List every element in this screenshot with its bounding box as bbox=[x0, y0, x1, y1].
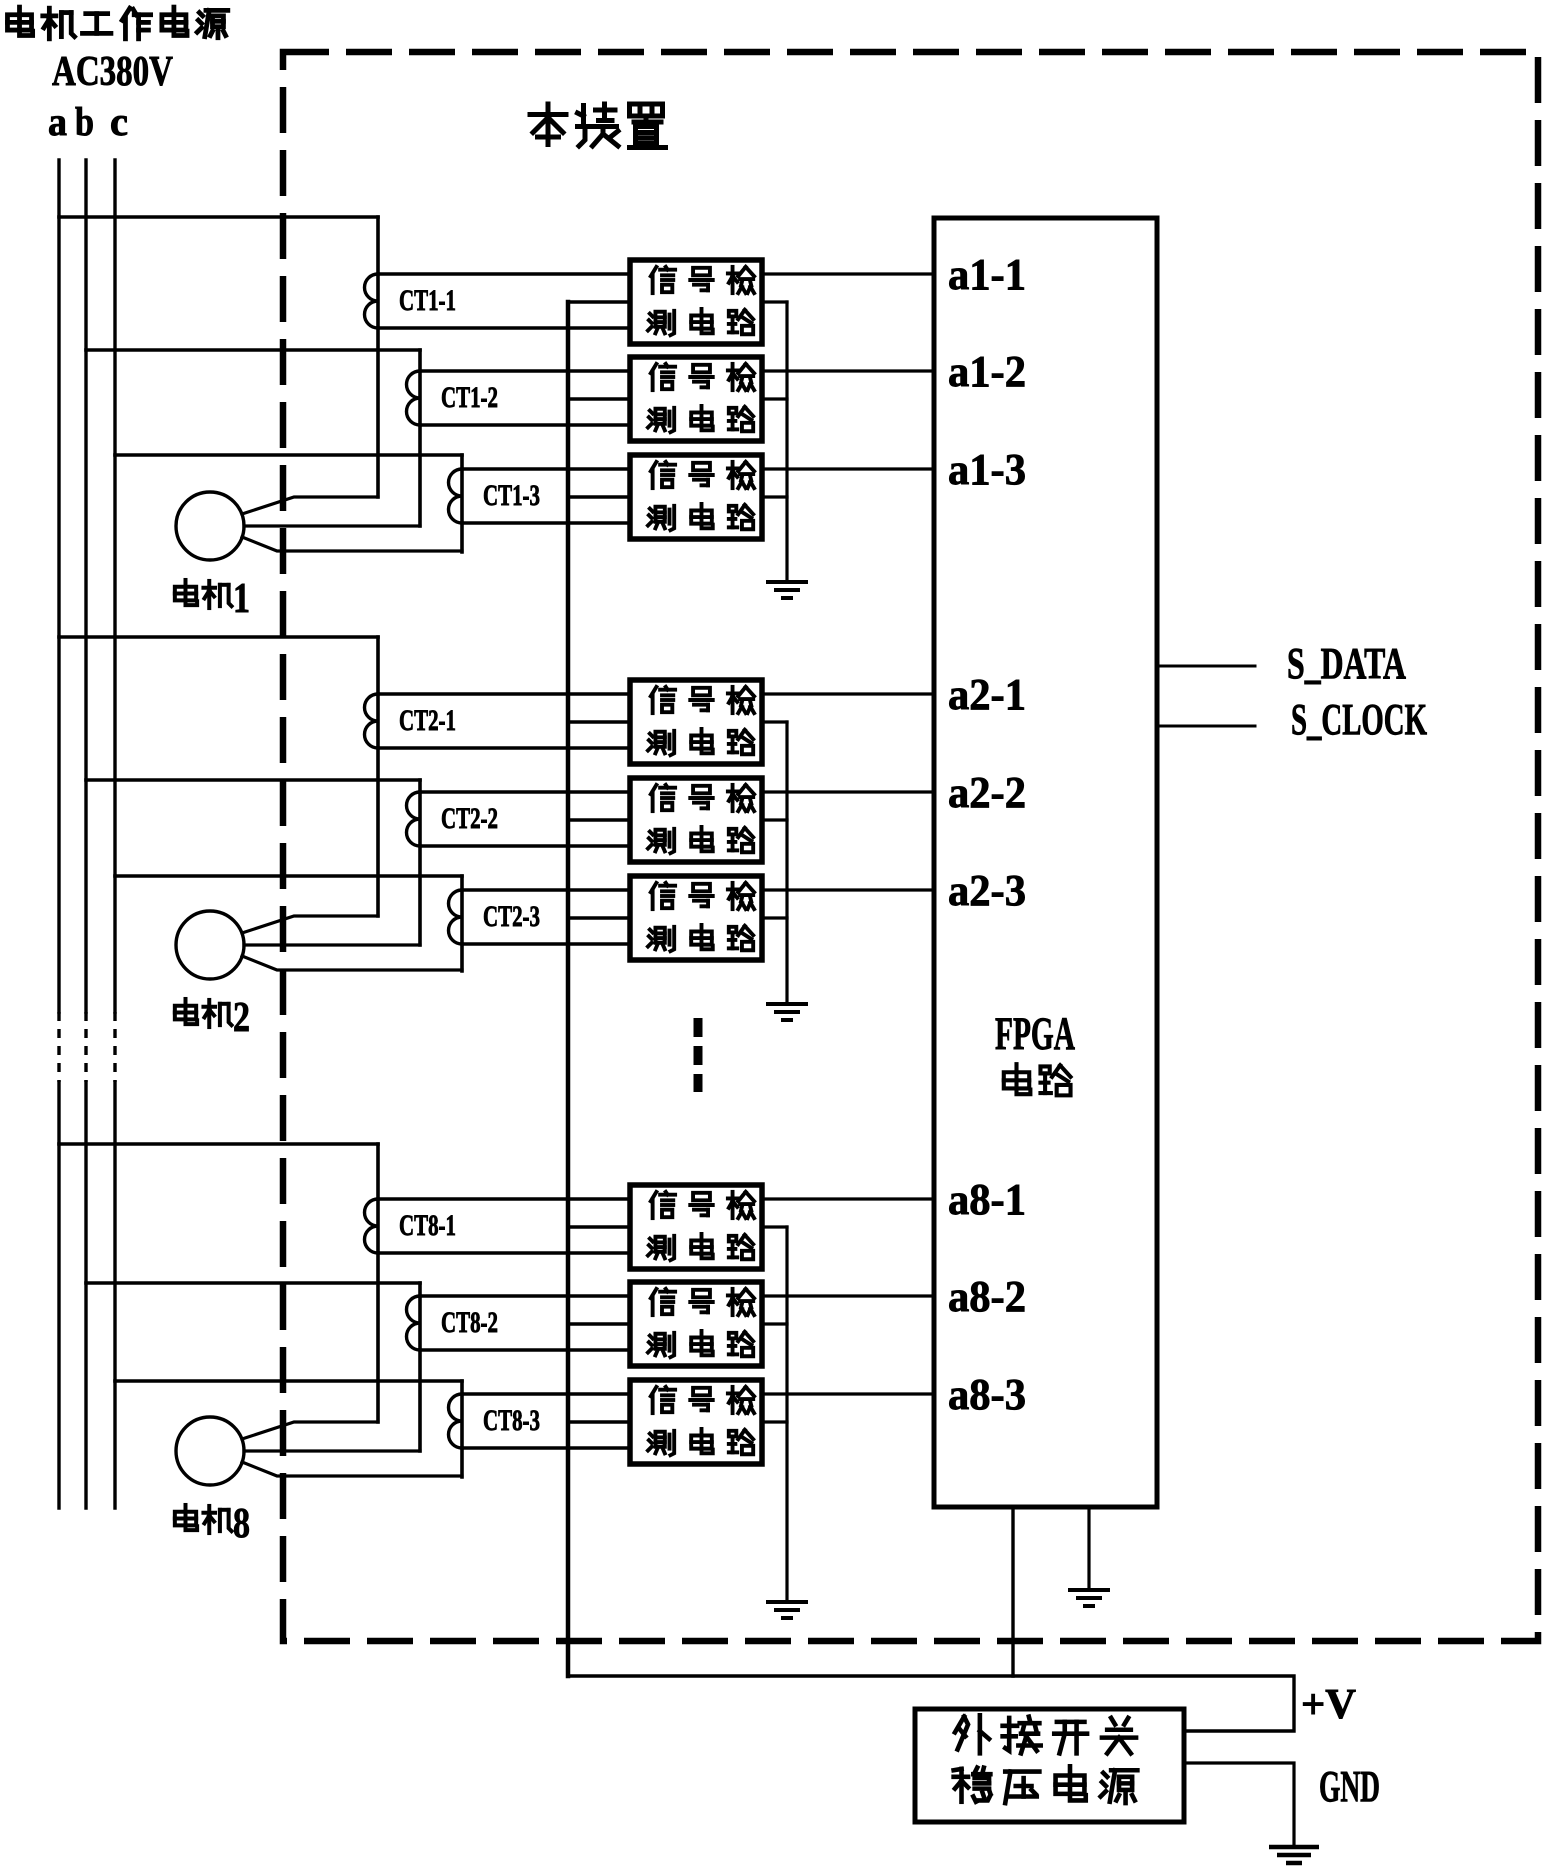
wire box1 output to FPGA bbox=[762, 272, 934, 275]
CT coil CT2-2 bbox=[407, 792, 421, 846]
wire phase-c tap motor8 bbox=[115, 1379, 462, 1383]
label 电路 (FPGA) bbox=[1004, 1064, 1031, 1094]
CT coil CT8-3 bbox=[449, 1394, 463, 1448]
power supply box 外接开关稳压电源 bbox=[915, 1709, 1184, 1822]
wire CT1-3 secondary bottom bbox=[462, 521, 630, 524]
svg-text:CT8-3: CT8-3 bbox=[483, 1404, 540, 1437]
wire motor2 phase-a lead bbox=[242, 916, 378, 933]
wire CT1 primary vertical b bbox=[418, 350, 422, 526]
wire FPGA +V feed bbox=[1011, 1507, 1014, 1676]
wire S_DATA bbox=[1157, 665, 1255, 668]
device enclosure dashed border 本装置 bbox=[283, 52, 1538, 1641]
wire motor1 phase-a lead bbox=[242, 497, 378, 514]
wire CT1 primary vertical a bbox=[376, 217, 380, 497]
CT coil CT1-2 bbox=[407, 371, 421, 425]
wire box1 ground branch bbox=[762, 300, 787, 303]
wire CT2-2 secondary top bbox=[420, 790, 630, 793]
power bus line c (phase c) bbox=[113, 160, 116, 1012]
svg-text:8: 8 bbox=[233, 1501, 250, 1547]
wire motor8 phase-c lead bbox=[242, 1462, 462, 1476]
signal detection box 信号检测电路 3 bbox=[630, 455, 762, 539]
wire CT2 primary vertical c bbox=[460, 876, 464, 971]
wire CT8 primary vertical a bbox=[376, 1144, 380, 1422]
svg-text:AC380V: AC380V bbox=[52, 49, 173, 95]
wire CT2-2 secondary bottom bbox=[420, 844, 630, 847]
svg-text:a8-2: a8-2 bbox=[948, 1272, 1026, 1321]
wire CT1 primary vertical c bbox=[460, 455, 464, 552]
ellipsis continuation dots bbox=[694, 1018, 703, 1092]
signal detection box 信号检测电路 1 bbox=[630, 260, 762, 344]
wire CT2-1 secondary bottom bbox=[378, 746, 630, 749]
svg-text:S_CLOCK: S_CLOCK bbox=[1291, 695, 1427, 744]
wire box9 ground branch bbox=[762, 1420, 787, 1423]
svg-text:a1-1: a1-1 bbox=[948, 250, 1026, 299]
wire +V feed row7 bbox=[568, 1225, 630, 1228]
wire box5 output to FPGA bbox=[762, 790, 934, 793]
+V supply bus vertical bbox=[566, 302, 571, 1676]
wire phase-a tap motor2 bbox=[59, 635, 378, 639]
signal detection box 信号检测电路 9 bbox=[630, 1380, 762, 1464]
svg-text:2: 2 bbox=[233, 995, 250, 1041]
ground bus group2 bbox=[785, 722, 788, 1002]
wire CT8-1 secondary top bbox=[378, 1197, 630, 1200]
motor M2 电机2 bbox=[176, 911, 244, 979]
wire box6 ground branch bbox=[762, 916, 787, 919]
wire box4 output to FPGA bbox=[762, 692, 934, 695]
motor M1 电机1 bbox=[176, 492, 244, 560]
wire phase-a tap motor1 bbox=[59, 215, 378, 219]
wire phase-c tap motor1 bbox=[115, 453, 462, 457]
wire CT8-1 secondary bottom bbox=[378, 1251, 630, 1254]
ground bus group1 bbox=[785, 302, 788, 580]
wire phase-b tap motor8 bbox=[86, 1281, 420, 1285]
wire motor1 phase-c lead bbox=[242, 537, 462, 551]
svg-text:a8-1: a8-1 bbox=[948, 1175, 1026, 1224]
ground symbol GND bbox=[1269, 1847, 1319, 1863]
FPGA box bbox=[934, 218, 1157, 1507]
wire CT1-2 secondary top bbox=[420, 369, 630, 372]
svg-text:CT8-1: CT8-1 bbox=[399, 1209, 456, 1242]
svg-text:+V: +V bbox=[1301, 1682, 1356, 1728]
svg-text:c: c bbox=[110, 99, 128, 144]
wire box3 ground branch bbox=[762, 495, 787, 498]
svg-text:a1-3: a1-3 bbox=[948, 445, 1026, 494]
wire motor2 phase-c lead bbox=[242, 956, 462, 970]
svg-text:CT2-1: CT2-1 bbox=[399, 704, 456, 737]
signal detection box 信号检测电路 7 bbox=[630, 1185, 762, 1269]
wire box7 ground branch bbox=[762, 1225, 787, 1228]
svg-text:1: 1 bbox=[233, 576, 250, 622]
svg-text:a2-3: a2-3 bbox=[948, 866, 1026, 915]
signal detection box 信号检测电路 8 bbox=[630, 1282, 762, 1366]
ground symbol FPGA bbox=[1068, 1590, 1110, 1606]
wire CT8-2 secondary bottom bbox=[420, 1348, 630, 1351]
wire CT8-3 secondary top bbox=[462, 1392, 630, 1395]
CT coil CT2-3 bbox=[449, 890, 463, 944]
svg-text:GND: GND bbox=[1319, 1762, 1380, 1811]
CT coil CT8-1 bbox=[365, 1199, 379, 1253]
wire box8 ground branch bbox=[762, 1322, 787, 1325]
wire +V feed row5 bbox=[568, 818, 630, 821]
wire box7 output to FPGA bbox=[762, 1197, 934, 1200]
wire motor8 phase-b lead bbox=[244, 1449, 420, 1452]
wire +V feed row2 bbox=[568, 397, 630, 400]
signal detection box 信号检测电路 6 bbox=[630, 876, 762, 960]
svg-text:a8-3: a8-3 bbox=[948, 1370, 1026, 1419]
wire FPGA ground stub bbox=[1087, 1507, 1090, 1588]
label 电机8 bbox=[175, 1505, 197, 1530]
wire CT2 primary vertical b bbox=[418, 780, 422, 945]
wire box9 output to FPGA bbox=[762, 1392, 934, 1395]
wire CT2-1 secondary top bbox=[378, 692, 630, 695]
label 本装置 bbox=[530, 104, 566, 145]
wire motor2 phase-b lead bbox=[244, 943, 420, 946]
svg-text:CT2-3: CT2-3 bbox=[483, 900, 540, 933]
svg-text:CT1-1: CT1-1 bbox=[399, 284, 456, 317]
power bus line a (phase a) bbox=[57, 160, 60, 1012]
wire CT8 primary vertical c bbox=[460, 1381, 464, 1477]
wire CT1-1 secondary bottom bbox=[378, 326, 630, 329]
wire phase-c tap motor2 bbox=[115, 874, 462, 878]
svg-text:CT1-2: CT1-2 bbox=[441, 381, 498, 414]
svg-text:CT2-2: CT2-2 bbox=[441, 802, 498, 835]
wire +V feed row4 bbox=[568, 720, 630, 723]
wire box6 output to FPGA bbox=[762, 888, 934, 891]
svg-text:a: a bbox=[48, 99, 67, 144]
wire +V feed row9 bbox=[568, 1420, 630, 1423]
motor M8 电机8 bbox=[176, 1417, 244, 1485]
ground symbol group2 bbox=[766, 1004, 808, 1020]
svg-text:S_DATA: S_DATA bbox=[1287, 639, 1406, 688]
CT coil CT2-1 bbox=[365, 694, 379, 748]
svg-text:CT8-2: CT8-2 bbox=[441, 1306, 498, 1339]
label 电机工作电源 bbox=[7, 7, 32, 35]
wire phase-a tap motor8 bbox=[59, 1142, 378, 1146]
wire phase-b tap motor2 bbox=[86, 778, 420, 782]
wire box5 ground branch bbox=[762, 818, 787, 821]
svg-text:a1-2: a1-2 bbox=[948, 347, 1026, 396]
+V supply rail bottom bbox=[568, 1676, 1294, 1731]
wire CT1-2 secondary bottom bbox=[420, 423, 630, 426]
wire motor1 phase-b lead bbox=[244, 524, 420, 527]
label 电机2 bbox=[175, 999, 197, 1024]
wire box4 ground branch bbox=[762, 720, 787, 723]
wire phase-b tap motor1 bbox=[86, 348, 420, 352]
signal detection box 信号检测电路 4 bbox=[630, 680, 762, 764]
svg-text:CT1-3: CT1-3 bbox=[483, 479, 540, 512]
wire CT8-2 secondary top bbox=[420, 1294, 630, 1297]
wire S_CLOCK bbox=[1157, 725, 1255, 728]
signal detection box 信号检测电路 5 bbox=[630, 778, 762, 862]
wire +V feed row3 bbox=[568, 495, 630, 498]
wire +V feed row8 bbox=[568, 1322, 630, 1325]
ground bus group8 bbox=[785, 1227, 788, 1600]
wire CT1-1 secondary top bbox=[378, 272, 630, 275]
CT coil CT8-2 bbox=[407, 1296, 421, 1350]
ground symbol group1 bbox=[766, 582, 808, 598]
label 电机1 bbox=[175, 580, 197, 605]
signal detection box 信号检测电路 2 bbox=[630, 357, 762, 441]
svg-text:a2-2: a2-2 bbox=[948, 768, 1026, 817]
wire box2 ground branch bbox=[762, 397, 787, 400]
CT coil CT1-3 bbox=[449, 469, 463, 523]
wire motor8 phase-a lead bbox=[242, 1422, 378, 1439]
wire +V feed row6 bbox=[568, 916, 630, 919]
svg-text:FPGA: FPGA bbox=[995, 1008, 1075, 1060]
wire GND output bbox=[1184, 1763, 1294, 1845]
wire box2 output to FPGA bbox=[762, 369, 934, 372]
svg-text:a2-1: a2-1 bbox=[948, 670, 1026, 719]
wire box8 output to FPGA bbox=[762, 1294, 934, 1297]
wire CT1-3 secondary top bbox=[462, 467, 630, 470]
power bus line b (phase b) bbox=[84, 160, 87, 1012]
wire CT2-3 secondary bottom bbox=[462, 942, 630, 945]
wire box3 output to FPGA bbox=[762, 467, 934, 470]
wire +V feed row1 bbox=[568, 300, 630, 303]
wire CT2 primary vertical a bbox=[376, 637, 380, 916]
wire CT2-3 secondary top bbox=[462, 888, 630, 891]
wire CT8 primary vertical b bbox=[418, 1283, 422, 1451]
ground symbol group8 bbox=[766, 1602, 808, 1618]
svg-text:b: b bbox=[75, 99, 94, 144]
wire CT8-3 secondary bottom bbox=[462, 1446, 630, 1449]
CT coil CT1-1 bbox=[365, 274, 379, 328]
